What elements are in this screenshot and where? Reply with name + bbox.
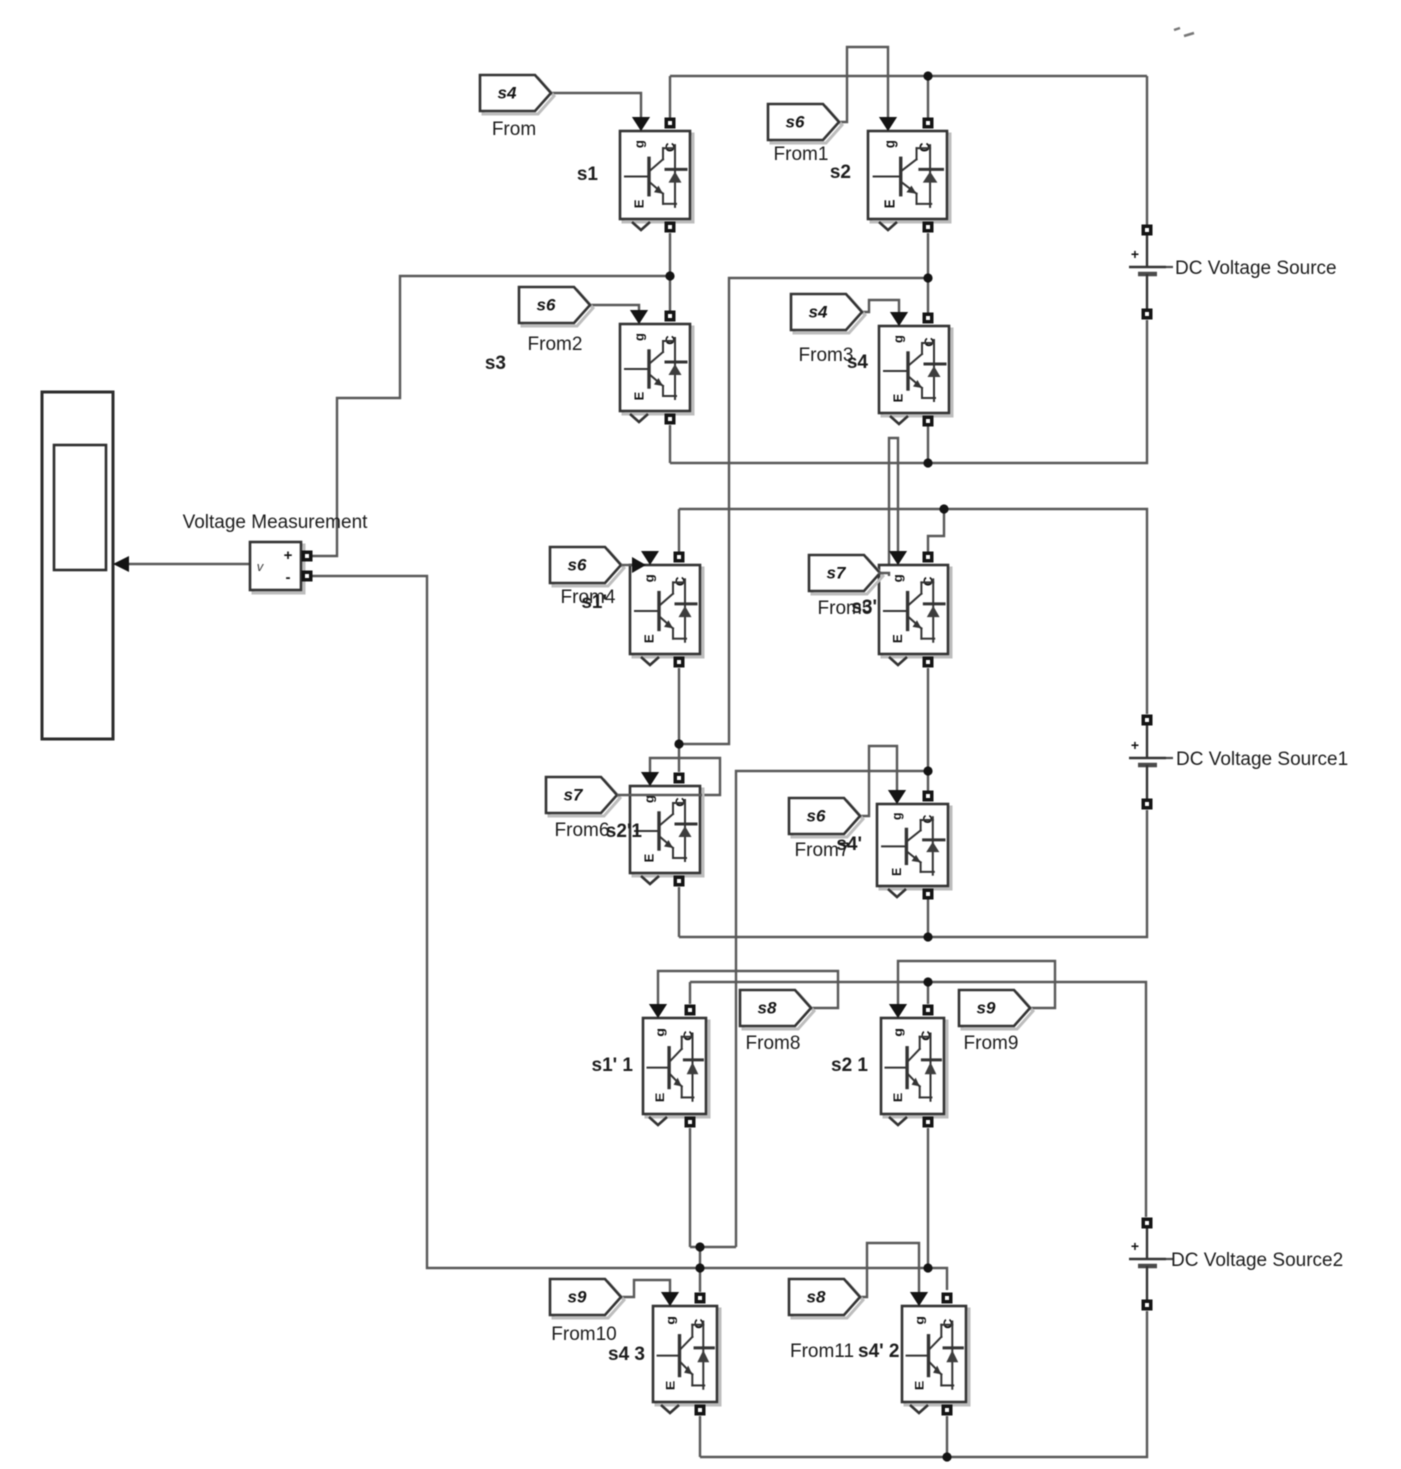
gate arrowhead s1p1 — [649, 1004, 667, 1018]
label V1 — [1175, 258, 1337, 279]
svg-text:s2: s2 — [830, 162, 851, 183]
svg-text:s4' 2: s4' 2 — [858, 1341, 900, 1362]
from tag From3 (signal s4) — [791, 294, 865, 333]
label From — [492, 119, 536, 140]
gate arrowhead s4p3 — [661, 1292, 679, 1306]
node s4p2.E junction on bus3 bottom — [942, 1452, 951, 1461]
wire s4p emitter to bus2 bottom — [927, 897, 929, 937]
svg-text:+: + — [1131, 246, 1139, 262]
svg-text:g: g — [890, 335, 905, 343]
wire s2p1 emitter to node F — [927, 1128, 929, 1268]
svg-text:g: g — [888, 813, 904, 820]
transistor s2p (IGBT/Diode block) — [630, 772, 703, 887]
label From4 — [561, 587, 616, 608]
svg-text:From4: From4 — [561, 587, 616, 608]
transistor s2p1 (IGBT/Diode block) — [881, 1004, 947, 1128]
gate arrowhead s2p1 — [889, 1004, 907, 1018]
svg-text:s3: s3 — [485, 353, 506, 374]
svg-text:s1: s1 — [577, 164, 599, 185]
node s2p1.C junction on bus3 top — [923, 977, 932, 986]
transistor s4p3 (IGBT/Diode block) — [653, 1292, 720, 1416]
svg-text:s2'1: s2'1 — [606, 821, 643, 842]
svg-text:s4: s4 — [809, 302, 828, 321]
wire From1 tag to s2 gate (hairpin over bus) — [839, 47, 888, 122]
from tag From2 (signal s6) — [519, 287, 593, 326]
wire node A to Voltage Measurement + input — [311, 276, 670, 556]
svg-text:E: E — [890, 634, 905, 643]
gate arrowhead s4 — [890, 312, 908, 326]
svg-text:Voltage Measurement: Voltage Measurement — [183, 512, 369, 533]
wire bus2 top to s3p collector (jog) — [928, 509, 944, 552]
transistor s1p (IGBT/Diode block) — [630, 551, 703, 668]
svg-text:g: g — [642, 574, 657, 582]
node E output junction — [695, 1263, 704, 1272]
svg-text:s7: s7 — [827, 563, 847, 582]
wire bus3 bottom rail — [700, 1311, 1147, 1457]
node D (bridge2 right midpoint) — [923, 766, 932, 775]
wire bus1 top rail (s1.C / s2.C to DC Voltage Source +) — [670, 75, 1147, 77]
node C (bridge2 left midpoint) — [674, 739, 683, 748]
gate arrowhead s4p2 — [910, 1292, 928, 1306]
node s4.E junction on bus1 bottom — [923, 458, 932, 467]
label s1 — [577, 164, 599, 185]
from tag From9 (signal s9) — [959, 990, 1033, 1029]
from tag From10 (signal s9) — [550, 1279, 624, 1318]
svg-text:s2 1: s2 1 — [831, 1055, 868, 1076]
wire node B to s4 collector — [927, 278, 929, 313]
wire s1p1 collector to bus3 top — [689, 982, 691, 1004]
wire s1p1 emitter down to node E — [689, 1128, 691, 1247]
wire From10 tag to s4p3 gate — [621, 1280, 670, 1298]
node s3p.C junction on bus2 top — [939, 504, 948, 513]
dc voltage source V3 — [1129, 1218, 1173, 1311]
from tag From4 (signal s6) — [550, 547, 624, 586]
gate arrowhead s4p — [888, 790, 906, 804]
wire node B to bridge2 node C (cascade link 1) — [679, 278, 928, 744]
transistor s4p2 (IGBT/Diode block) — [902, 1292, 969, 1416]
svg-text:E: E — [664, 1380, 678, 1390]
svg-text:s9: s9 — [977, 998, 996, 1017]
wire node C to s2p collector — [678, 744, 680, 772]
transistor s1 (IGBT/Diode block) — [620, 117, 693, 233]
svg-text:g: g — [881, 140, 898, 148]
wire s1 collector to bus1 top — [669, 76, 671, 126]
svg-text:From: From — [492, 119, 536, 140]
label s3 — [485, 353, 506, 374]
wire From4 tag to s1p gate — [621, 564, 634, 566]
svg-text:g: g — [891, 1028, 904, 1037]
wire From6 tag to s2p gate (loop) — [650, 758, 720, 795]
gate arrowhead s3 — [630, 310, 648, 324]
label s4p — [836, 834, 862, 855]
node F (bridge3 right midpoint) — [923, 1263, 932, 1272]
label V3 — [1171, 1250, 1343, 1271]
svg-text:DC Voltage Source2: DC Voltage Source2 — [1171, 1250, 1343, 1271]
wire From5 tag tip segment — [878, 573, 889, 576]
label s1p — [581, 592, 607, 613]
svg-text:-: - — [286, 569, 291, 586]
svg-text:s7: s7 — [564, 785, 584, 804]
dc voltage source V2 — [1129, 715, 1173, 810]
label s4p3 — [608, 1344, 645, 1365]
label Voltage Measurement — [183, 512, 369, 533]
svg-text:g: g — [632, 140, 647, 148]
svg-text:g: g — [631, 333, 646, 341]
svg-text:From2: From2 — [528, 334, 583, 355]
svg-text:E: E — [641, 853, 656, 862]
gate arrowhead s2p — [641, 772, 659, 786]
from tag From11 (signal s8) — [789, 1279, 863, 1318]
dc voltage source V1 — [1129, 225, 1173, 320]
wire s3 emitter to bus1 bottom — [669, 425, 671, 463]
wire s3p emitter to node D — [927, 668, 929, 771]
wire bus3 top rail — [690, 982, 1146, 1217]
from tag From (signal s4) — [480, 75, 554, 114]
from tag From7 (signal s6) — [789, 798, 863, 837]
svg-text:E: E — [642, 634, 657, 643]
wire s4 emitter to bus1 bottom — [927, 419, 929, 463]
svg-text:g: g — [913, 1316, 927, 1325]
wire s2p1 collector to bus3 top — [927, 982, 929, 1004]
label s2p — [606, 821, 643, 842]
transistor s4p (IGBT/Diode block) — [877, 790, 951, 900]
wire node E connector — [690, 1246, 736, 1248]
svg-text:s6: s6 — [786, 112, 805, 131]
node A (bridge1 left midpoint) — [665, 271, 674, 280]
transistor s3 (IGBT/Diode block) — [620, 310, 693, 425]
label From2 — [528, 334, 583, 355]
transistor s3p (IGBT/Diode block) — [879, 551, 951, 668]
svg-text:DC Voltage Source1: DC Voltage Source1 — [1176, 749, 1348, 770]
wire From2 tag to s3 gate — [590, 305, 639, 315]
transistor s2 (IGBT/Diode block) — [868, 117, 950, 233]
label From5 — [818, 598, 873, 619]
label From3 — [799, 345, 854, 366]
svg-text:s6: s6 — [807, 806, 826, 825]
label s4 — [847, 352, 869, 373]
svg-text:s8: s8 — [758, 998, 777, 1017]
svg-text:From6: From6 — [555, 820, 610, 841]
wire From6 tag segment crossing s2p block — [617, 794, 702, 796]
wire s2p emitter to bus2 bottom — [678, 887, 680, 937]
svg-text:g: g — [653, 1028, 666, 1037]
svg-text:E: E — [891, 1092, 904, 1102]
label s1p1 — [592, 1055, 634, 1076]
from tag From5 (signal s7) — [809, 555, 883, 594]
from tag From6 (signal s7) — [546, 777, 620, 816]
node s4p.E junction on bus2 bottom — [923, 932, 932, 941]
svg-text:DC Voltage Source: DC Voltage Source — [1175, 258, 1337, 279]
scope block — [42, 392, 113, 739]
wire From9 tag to s2p1 gate (hairpin) — [898, 961, 1055, 1011]
wire node D to bridge3 (cascade link 2) — [736, 771, 928, 1247]
svg-text:+: + — [284, 547, 293, 564]
svg-text:g: g — [890, 574, 905, 582]
gate arrowhead s1p (side entry) — [632, 557, 646, 573]
svg-text:From11: From11 — [790, 1341, 854, 1362]
svg-text:E: E — [653, 1092, 666, 1102]
label s2 — [830, 162, 851, 183]
label From7 — [795, 840, 850, 861]
svg-text:From9: From9 — [964, 1033, 1019, 1054]
wire node E to s4p3 collector — [699, 1247, 701, 1292]
svg-text:E: E — [881, 199, 898, 208]
wire From8 tag to s1p1 gate (hairpin) — [658, 971, 838, 1011]
wire From7 tag to s4p gate (hairpin) — [860, 746, 897, 816]
wire s1p emitter to node C — [678, 668, 680, 744]
svg-text:E: E — [888, 868, 904, 876]
svg-text:s8: s8 — [807, 1287, 826, 1306]
label From6 — [555, 820, 610, 841]
wire s4p2 emitter to bus3 bottom — [946, 1416, 948, 1457]
svg-text:From7: From7 — [795, 840, 850, 861]
svg-text:From8: From8 — [746, 1033, 801, 1054]
label From9 — [964, 1033, 1019, 1054]
wire From3 tag to s4 gate — [862, 300, 899, 317]
label s3p — [851, 597, 877, 618]
label From1 — [774, 144, 829, 165]
wire bus2 bottom rail — [679, 810, 1147, 937]
svg-text:E: E — [913, 1380, 927, 1390]
voltage measurement block — [250, 542, 313, 593]
gate arrowhead s1 — [632, 117, 650, 131]
gate arrowhead s3p — [889, 551, 907, 565]
gate arrowhead s2 — [879, 117, 897, 131]
svg-text:+: + — [1131, 737, 1139, 753]
wire From tag to s1 gate — [551, 93, 641, 120]
svg-text:s1' 1: s1' 1 — [592, 1055, 634, 1076]
label From10 — [551, 1324, 616, 1345]
svg-text:E: E — [631, 391, 646, 400]
wire s1 emitter to node A — [669, 233, 671, 276]
svg-text:From1: From1 — [774, 144, 829, 165]
svg-text:E: E — [632, 199, 647, 208]
wire s1p collector to bus2 top — [678, 509, 680, 552]
svg-text:g: g — [664, 1316, 678, 1325]
wire s4p3 emitter to bus3 bottom — [699, 1416, 701, 1457]
label V2 — [1176, 749, 1348, 770]
svg-text:E: E — [890, 393, 905, 402]
svg-text:+: + — [1131, 1238, 1139, 1254]
wire From11 tag to s4p2 gate (hairpin) — [860, 1243, 919, 1298]
svg-text:From5: From5 — [818, 598, 873, 619]
wire node A to s3 collector — [669, 276, 671, 314]
label s2p1 — [831, 1055, 868, 1076]
wire s2 collector to bus1 top — [927, 76, 929, 126]
svg-text:s6: s6 — [568, 555, 587, 574]
from tag From8 (signal s8) — [740, 990, 814, 1029]
wire bus2 top rail — [679, 509, 1147, 714]
label From8 — [746, 1033, 801, 1054]
wire From5 tag to s3p gate (hairpin) — [889, 438, 898, 576]
svg-text:s4: s4 — [498, 83, 517, 102]
wire bus1 top to DC Voltage Source + terminal — [1146, 76, 1148, 225]
svg-text:From10: From10 — [551, 1324, 616, 1345]
node B (bridge1 right midpoint) — [923, 273, 932, 282]
node s2.C junction on bus1 top — [923, 71, 932, 80]
transistor s4 (IGBT/Diode block) — [879, 312, 952, 427]
from tag From1 (signal s6) — [768, 104, 842, 143]
wire Voltage Measurement output to Scope — [128, 563, 250, 565]
wire bus1 bottom rail — [670, 320, 1147, 463]
wire s2 emitter to node B — [927, 233, 929, 278]
svg-text:s4 3: s4 3 — [608, 1344, 645, 1365]
wire node D to s4p collector — [927, 771, 929, 792]
node E (bridge3 left midpoint) — [695, 1242, 704, 1251]
label From11 — [790, 1341, 854, 1362]
svg-text:From3: From3 — [799, 345, 854, 366]
stray cursor mark — [1174, 28, 1194, 36]
svg-text:s9: s9 — [568, 1287, 587, 1306]
transistor s1p1 (IGBT/Diode block) — [643, 1004, 709, 1128]
label s4p2 — [858, 1341, 900, 1362]
scope input arrowhead — [113, 556, 129, 572]
wire Voltage Measurement - input to node F — [311, 576, 947, 1290]
svg-text:s6: s6 — [537, 295, 556, 314]
